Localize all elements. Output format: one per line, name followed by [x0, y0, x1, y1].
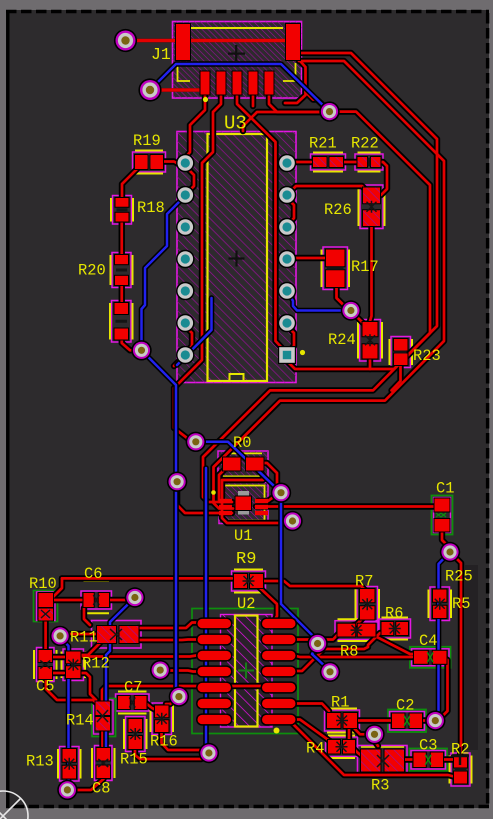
resistor R17 pads	[325, 249, 346, 289]
resistor R21 pads	[312, 156, 344, 168]
resistor R4 pads	[327, 739, 356, 755]
svg-text:R8: R8	[340, 643, 358, 661]
svg-text:R19: R19	[133, 132, 161, 150]
svg-text:R21: R21	[309, 135, 337, 153]
shadow band right margin	[465, 565, 478, 750]
via V19	[199, 743, 219, 763]
regulator U1 body	[219, 483, 268, 524]
resistor R9 body	[232, 570, 266, 593]
resistor R9 pads	[233, 573, 264, 589]
svg-text:R17: R17	[351, 258, 379, 276]
via V14	[320, 662, 340, 682]
svg-text:R10: R10	[29, 575, 57, 593]
resistor R19 body	[133, 151, 166, 174]
svg-text:R20: R20	[78, 262, 106, 280]
resistor R16 pads	[154, 705, 170, 734]
svg-text:U3: U3	[224, 113, 247, 135]
svg-text:R13: R13	[26, 753, 54, 771]
svg-text:R24: R24	[328, 331, 356, 349]
svg-text:R22: R22	[351, 135, 379, 153]
capacitor C7 body	[116, 692, 150, 714]
resistor R7 body	[356, 587, 380, 623]
via V9	[282, 511, 302, 531]
svg-text:R3: R3	[371, 777, 389, 795]
resistor R2 pads	[453, 755, 468, 785]
capacitor C2 body	[388, 710, 426, 733]
capacitor C5 body	[34, 648, 57, 682]
svg-text:R14: R14	[66, 712, 94, 730]
resistor R26 body	[359, 185, 385, 229]
svg-text:R0: R0	[233, 434, 251, 452]
capacitor C2 pads	[391, 713, 423, 730]
capacitor C8 body	[92, 746, 115, 781]
capacitor C6 body	[81, 581, 112, 613]
svg-text:R12: R12	[82, 655, 110, 673]
svg-text:R11: R11	[70, 629, 98, 647]
resistor R10 pads	[38, 592, 55, 622]
svg-text:R23: R23	[413, 347, 441, 365]
op-amp U3 pads	[176, 154, 305, 365]
capacitor C1 body	[432, 496, 453, 535]
drill origin marker	[0, 791, 28, 819]
svg-text:C5: C5	[36, 678, 54, 696]
svg-text:R9: R9	[236, 550, 256, 569]
svg-text:R4: R4	[306, 740, 324, 758]
via V4	[131, 340, 151, 360]
resistor R15 body	[124, 717, 147, 752]
resistor R18 body	[111, 196, 133, 225]
resistor R3 body	[358, 746, 408, 775]
resistor R8 pads	[337, 623, 377, 638]
resistor R18 pads	[115, 197, 130, 223]
svg-text:C1: C1	[436, 480, 454, 498]
svg-text:R16: R16	[150, 733, 178, 751]
via V13	[307, 633, 327, 653]
op-amp U3 body	[177, 132, 296, 383]
resistor R4 body	[326, 736, 358, 759]
resistor R20 pads	[114, 254, 129, 286]
resistor R5 / R25 pads	[432, 589, 448, 620]
capacitor C5 pads	[38, 649, 54, 680]
resistor R24 body	[358, 320, 382, 362]
via V12	[50, 626, 70, 646]
svg-text:C6: C6	[84, 565, 102, 583]
svg-text:R6: R6	[385, 605, 403, 623]
capacitor C6 pads	[83, 592, 111, 608]
connector J1 body	[173, 22, 302, 99]
resistor R3 pads	[360, 749, 405, 773]
via V2 (J1 hole)	[138, 78, 161, 101]
capacitor C8 pads	[96, 747, 112, 779]
resistor R16 body	[151, 703, 174, 735]
resistor R19 pads	[134, 154, 164, 170]
via V3	[319, 101, 339, 121]
capacitor C7 pads	[117, 695, 148, 710]
resistor R12 body	[62, 649, 86, 681]
via V10	[440, 542, 460, 562]
resistor R13 pads	[62, 748, 78, 780]
svg-text:C4: C4	[419, 632, 437, 650]
connector J1 pads	[175, 23, 301, 102]
resistor R8 body	[335, 619, 378, 641]
via V8	[271, 483, 291, 503]
capacitor C3 body	[410, 749, 448, 772]
svg-text:R1: R1	[331, 694, 349, 712]
svg-text:R7: R7	[355, 573, 373, 591]
resistor R14 body	[92, 699, 116, 737]
resistor R24 pads	[362, 321, 379, 360]
svg-text:R25: R25	[445, 568, 473, 586]
capacitor C4 pads	[413, 650, 448, 665]
op-amp U2 pads	[196, 617, 297, 733]
regulator U1 pads	[211, 490, 268, 515]
resistor R11 pads	[96, 625, 140, 644]
svg-text:U1: U1	[234, 527, 252, 545]
via V6	[186, 432, 206, 452]
via V7	[167, 472, 187, 492]
resistor R2 body	[450, 753, 472, 786]
via V18	[364, 724, 384, 744]
resistor R26 pads	[362, 187, 381, 228]
resistor R15 pads	[128, 718, 144, 750]
svg-text:R26: R26	[324, 201, 352, 219]
capacitor C3 pads	[413, 752, 445, 769]
resistor R11 body	[92, 621, 142, 649]
svg-text:R5: R5	[452, 595, 470, 613]
via V1 (J1 hole)	[114, 29, 137, 52]
resistor R21 body	[311, 153, 346, 172]
via V15	[150, 660, 170, 680]
resistor R20 body	[111, 253, 133, 288]
capacitor C4 body	[410, 647, 451, 668]
resistor R0 pads	[222, 457, 265, 472]
svg-text:C3: C3	[419, 737, 437, 755]
op-amp U2 body	[192, 609, 298, 734]
anchor cross R2	[451, 747, 469, 765]
resistor R14 pads	[95, 701, 112, 732]
resistor R22 body	[355, 153, 383, 172]
resistor R1 body	[325, 709, 360, 733]
resistor R23 pads	[393, 338, 409, 366]
via V16	[169, 686, 189, 706]
resistor R10 body	[34, 591, 58, 622]
via V5	[341, 300, 361, 320]
resistor R0 body	[218, 451, 268, 479]
svg-text:J1: J1	[151, 45, 171, 64]
via V11	[125, 587, 145, 607]
svg-text:R2: R2	[451, 741, 469, 759]
svg-text:C7: C7	[124, 679, 142, 697]
capacitor C1 pads	[434, 498, 451, 533]
svg-text:R18: R18	[137, 199, 165, 217]
via V20	[57, 780, 77, 800]
resistor R27 (unlabeled) body	[110, 301, 133, 343]
svg-text:U2: U2	[237, 595, 255, 613]
svg-text:C2: C2	[396, 697, 414, 715]
resistor R6 pads	[381, 621, 410, 636]
resistor R22 pads	[357, 156, 382, 168]
resistor R1 pads	[326, 712, 358, 729]
resistor R7 pads	[359, 588, 376, 621]
resistor R13 body	[58, 747, 81, 782]
resistor R12 pads	[65, 651, 82, 680]
resistor R17 body	[322, 247, 350, 290]
svg-text:C8: C8	[92, 780, 110, 798]
resistor R23 body	[390, 337, 413, 368]
resistor R5 / R25 body	[429, 587, 452, 621]
svg-text:R15: R15	[120, 751, 148, 769]
resistor R6 body	[379, 618, 411, 640]
resistor R27 (unlabeled) pads	[114, 302, 130, 341]
via V17	[425, 710, 445, 730]
